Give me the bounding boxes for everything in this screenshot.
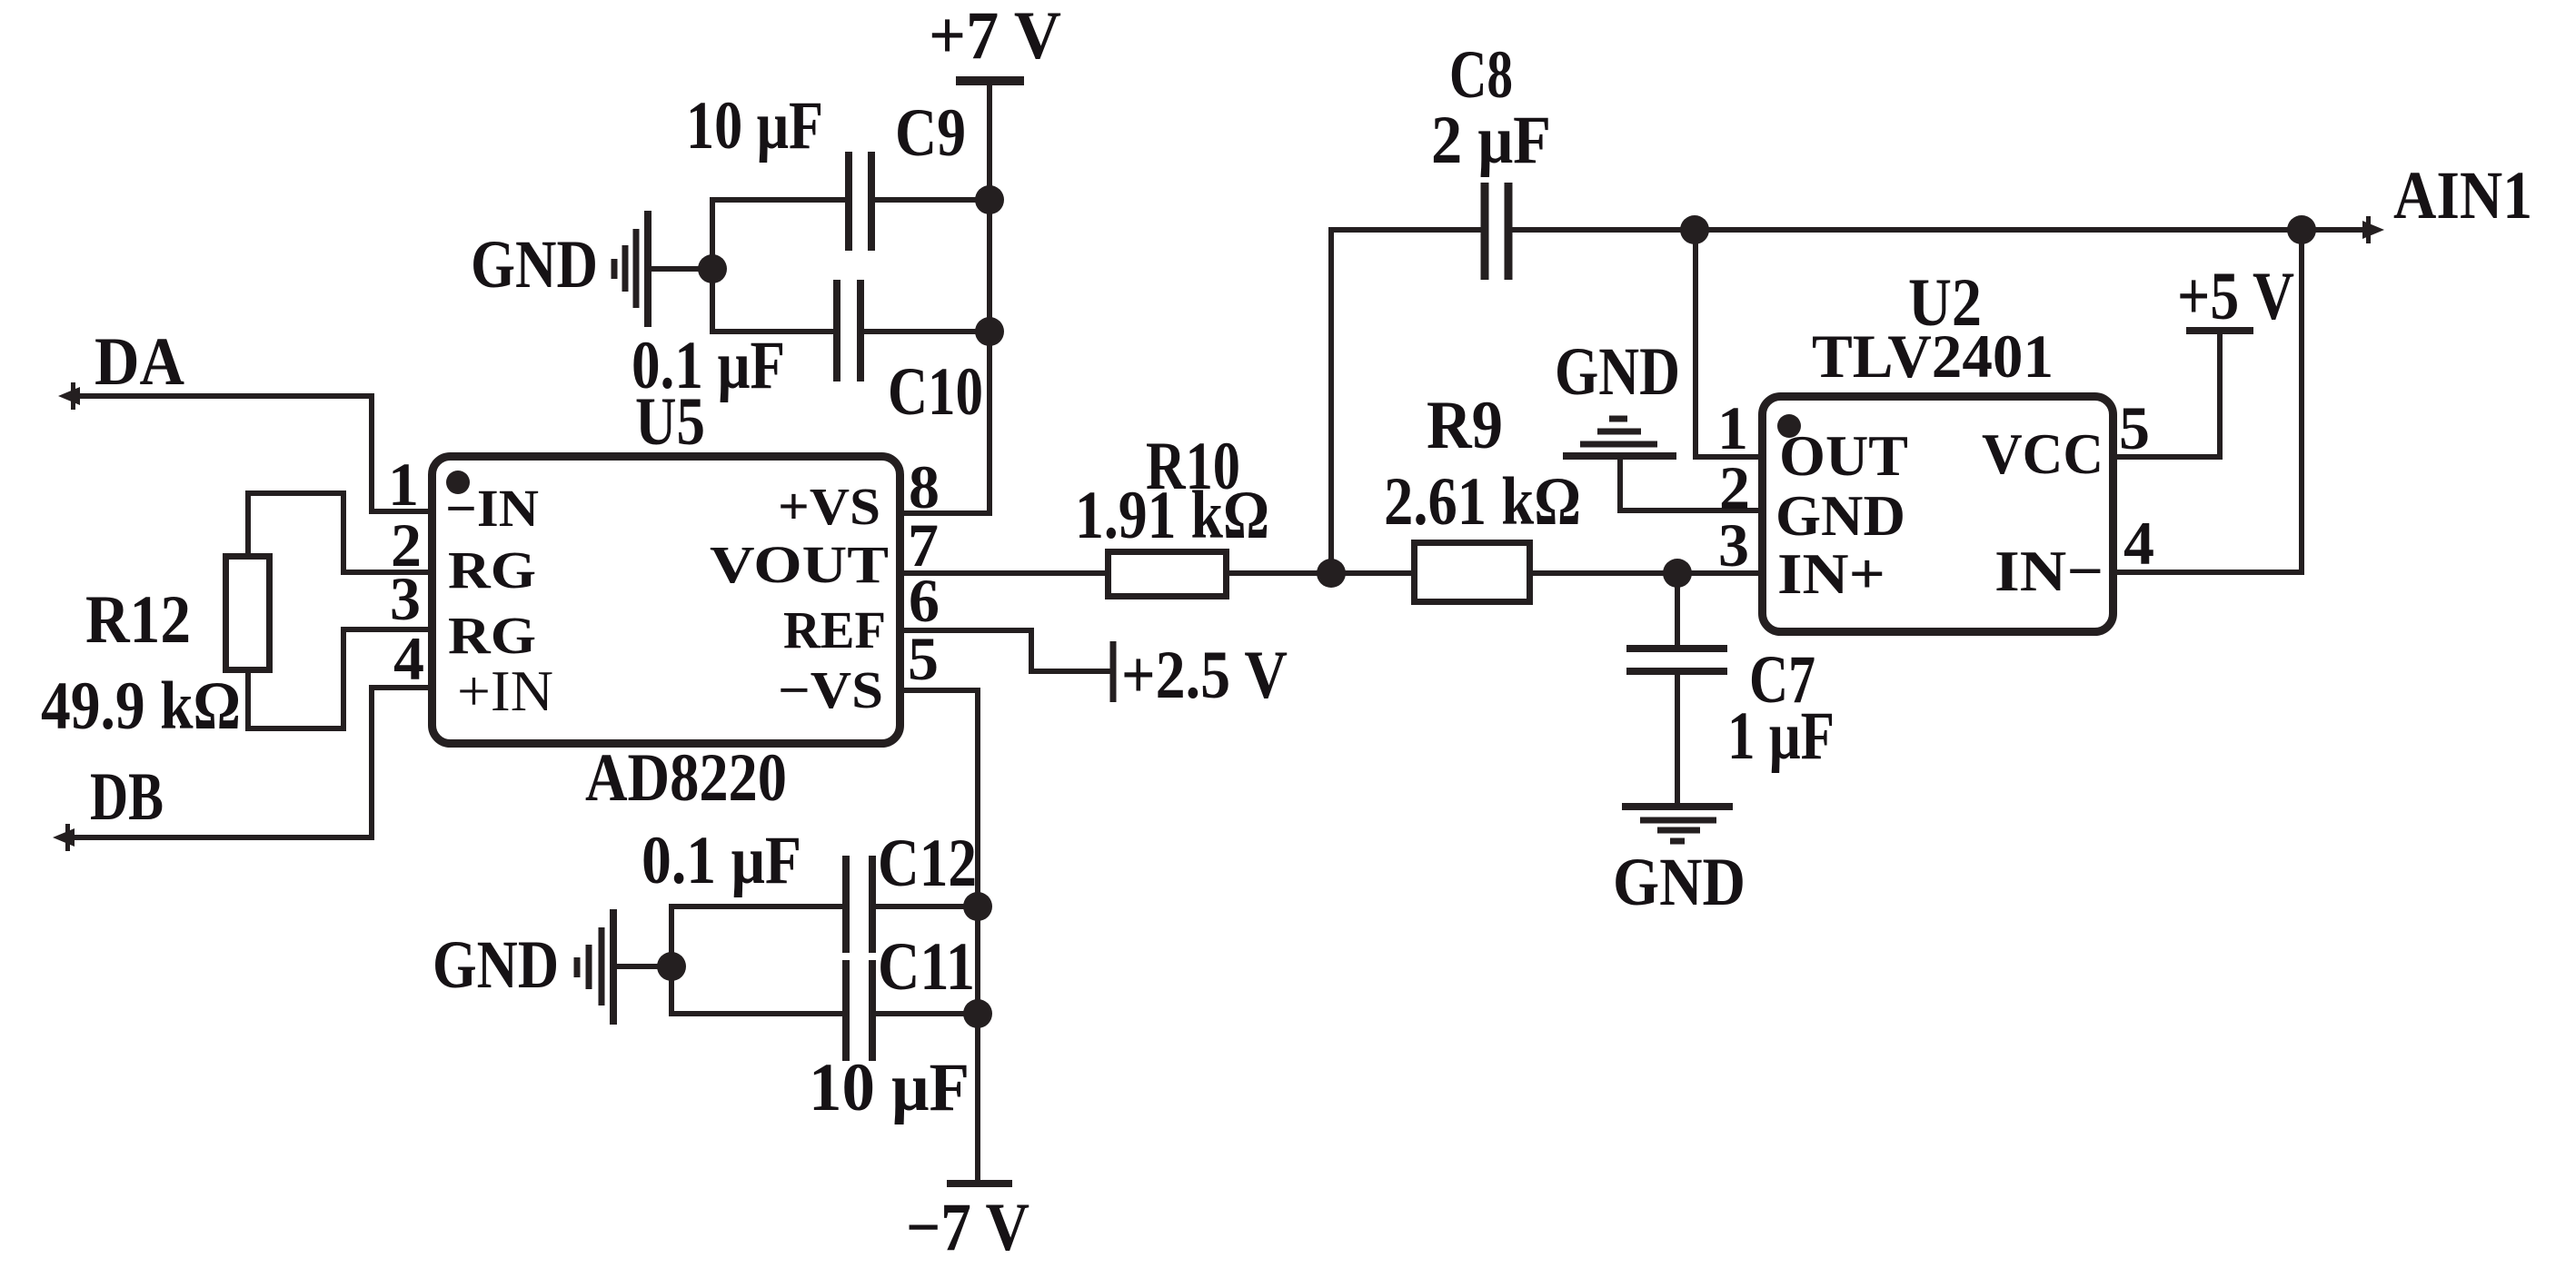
svg-text:IN+: IN+ [1777,541,1885,606]
svg-text:C11: C11 [878,929,975,1005]
svg-text:TLV2401: TLV2401 [1812,322,2054,391]
svg-text:IN−: IN− [1994,539,2104,603]
svg-text:C10: C10 [888,354,983,430]
svg-text:C9: C9 [895,95,966,171]
svg-text:3: 3 [390,564,421,633]
svg-text:2.61 kΩ: 2.61 kΩ [1384,464,1581,540]
svg-text:10 μF: 10 μF [809,1050,970,1125]
svg-text:AD8220: AD8220 [585,740,787,816]
svg-text:OUT: OUT [1779,423,1908,488]
svg-text:−7 V: −7 V [906,1190,1029,1265]
svg-text:1: 1 [388,450,419,519]
svg-text:49.9 kΩ: 49.9 kΩ [41,669,241,744]
svg-text:−VS: −VS [778,660,883,719]
svg-text:RG: RG [448,606,536,665]
svg-text:+2.5 V: +2.5 V [1121,638,1288,713]
svg-text:−IN: −IN [445,479,539,538]
svg-text:AIN1: AIN1 [2393,158,2532,233]
svg-text:1 μF: 1 μF [1727,698,1835,774]
svg-text:+7 V: +7 V [929,0,1061,74]
svg-text:R9: R9 [1427,388,1503,463]
svg-text:VCC: VCC [1982,421,2104,486]
svg-text:U5: U5 [635,384,705,460]
svg-text:GND: GND [1613,845,1746,920]
svg-text:4: 4 [2123,509,2154,578]
svg-text:+IN: +IN [457,659,553,723]
svg-text:GND: GND [1775,483,1905,548]
svg-text:VOUT: VOUT [710,535,889,594]
svg-text:GND: GND [1555,334,1680,410]
svg-text:10 μF: 10 μF [686,88,823,163]
svg-text:3: 3 [1718,510,1749,580]
svg-text:GND: GND [471,227,598,302]
svg-text:2 μF: 2 μF [1431,103,1551,178]
svg-text:R12: R12 [85,582,191,658]
svg-text:+VS: +VS [778,477,880,536]
svg-text:5: 5 [908,624,939,693]
svg-text:DA: DA [94,324,184,400]
svg-text:C12: C12 [878,826,977,901]
svg-text:5: 5 [2119,393,2150,462]
svg-text:1.91 kΩ: 1.91 kΩ [1075,478,1269,553]
svg-text:4: 4 [393,624,424,693]
svg-text:RG: RG [448,540,536,599]
svg-text:0.1 μF: 0.1 μF [642,823,801,898]
svg-text:1: 1 [1717,393,1748,462]
svg-text:C8: C8 [1449,37,1513,113]
svg-text:GND: GND [433,927,559,1003]
svg-text:REF: REF [783,600,886,659]
svg-text:DB: DB [90,759,164,835]
svg-text:+5 V: +5 V [2177,259,2294,334]
